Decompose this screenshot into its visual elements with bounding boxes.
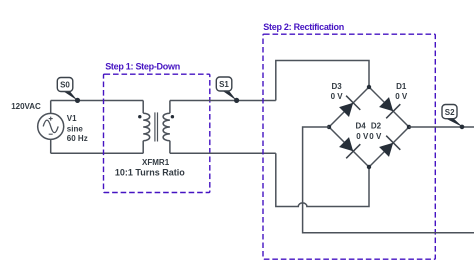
svg-text:0 V: 0 V <box>369 132 382 141</box>
svg-text:60 Hz: 60 Hz <box>67 134 88 143</box>
svg-text:S2: S2 <box>445 108 455 117</box>
wire bottom rail transformer primary to source <box>51 152 144 154</box>
svg-text:Step 1: Step-Down: Step 1: Step-Down <box>105 62 180 72</box>
svg-text:S0: S0 <box>60 81 70 90</box>
voltage source V1 <box>38 113 64 139</box>
diode D1 (top vertex to right vertex) <box>379 97 400 118</box>
svg-text:10:1 Turns Ratio: 10:1 Turns Ratio <box>115 167 185 177</box>
svg-text:0 V: 0 V <box>331 92 344 101</box>
wire right vertex to S2 and off right edge <box>409 126 474 128</box>
transformer phase dot secondary <box>171 115 174 118</box>
svg-text:120VAC: 120VAC <box>11 102 41 111</box>
wire secondary bottom down and right to bridge bottom (with hop) <box>276 153 369 206</box>
svg-text:0 V: 0 V <box>356 132 369 141</box>
diode D4 (left vertex to bottom vertex) <box>339 137 360 158</box>
svg-text:D3: D3 <box>331 82 342 91</box>
diode D2 (bottom vertex to right vertex) <box>379 136 400 157</box>
wire secondary bottom rail <box>170 152 276 154</box>
junction dot bottom vertex <box>367 165 371 169</box>
wire left vertex to negative rail <box>303 127 474 233</box>
node S1 <box>216 77 239 103</box>
svg-text:0 V: 0 V <box>395 92 408 101</box>
node S0 <box>57 78 80 104</box>
svg-text:XFMR1: XFMR1 <box>142 158 170 167</box>
wire source bottom vertical <box>50 139 52 153</box>
svg-text:Step 2: Rectification: Step 2: Rectification <box>263 22 344 32</box>
bridge diamond edges <box>329 87 409 167</box>
node S2 <box>442 105 464 130</box>
transformer XFMR1 primary winding <box>143 101 150 154</box>
svg-text:V1: V1 <box>67 114 77 123</box>
wire top rail source to transformer primary <box>51 100 144 102</box>
svg-text:D2: D2 <box>371 122 382 131</box>
diode D3 (left vertex to top vertex) <box>339 96 360 117</box>
transformer XFMR1 secondary winding <box>163 101 170 154</box>
Step 2 dashed box <box>263 34 435 259</box>
svg-text:sine: sine <box>67 124 84 133</box>
wire source top vertical <box>50 101 52 114</box>
Step 1 dashed box <box>104 74 210 192</box>
wire secondary top to bridge: up, right, down to top vertex <box>276 61 369 101</box>
junction dot right vertex <box>407 125 411 129</box>
svg-text:D4: D4 <box>355 122 366 131</box>
junction dot top vertex <box>367 85 371 89</box>
svg-text:S1: S1 <box>219 80 229 89</box>
transformer phase dot primary <box>138 115 141 118</box>
transformer core <box>155 112 158 141</box>
wire secondary top rail <box>170 100 276 102</box>
junction dot left vertex <box>327 125 331 129</box>
svg-text:D1: D1 <box>396 82 407 91</box>
